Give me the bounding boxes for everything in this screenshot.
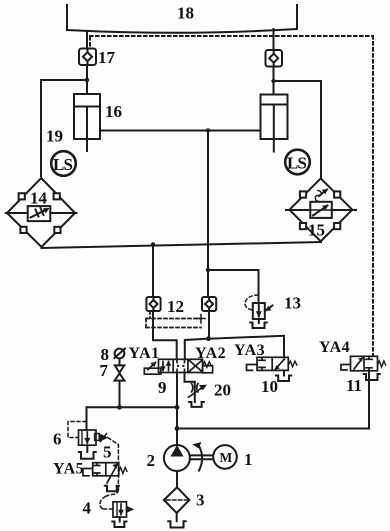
- check valve 7: [115, 359, 125, 407]
- node manifold to pump riser: [175, 405, 180, 410]
- svg-text:7: 7: [100, 361, 109, 380]
- svg-text:13: 13: [284, 294, 301, 313]
- motor 1: [213, 445, 237, 469]
- wire port T to throttle 20: [185, 373, 195, 403]
- wire branch to diamond 14: [41, 80, 87, 176]
- node center port: [206, 128, 210, 132]
- valve 10: [247, 357, 297, 370]
- rotation arrow: [194, 443, 203, 471]
- wire 12L to valve 9 port A: [153, 311, 177, 360]
- wire 4 to tank: [119, 517, 121, 521]
- svg-text:18: 18: [177, 4, 194, 23]
- tank 10: [276, 376, 291, 382]
- wire 17R to cylinder: [273, 67, 275, 95]
- wire center vertical: [207, 131, 209, 297]
- svg-text:2: 2: [147, 451, 156, 470]
- valve 9 proportional directional: [144, 359, 212, 374]
- tank 5: [79, 452, 96, 459]
- svg-text:15: 15: [308, 221, 325, 240]
- wire 5 to tank: [86, 445, 88, 452]
- LS sensor right: [285, 150, 310, 175]
- svg-text:20: 20: [214, 381, 231, 400]
- wire branch to diamond 15: [274, 81, 322, 178]
- gauge 8: [115, 349, 126, 359]
- svg-text:9: 9: [158, 378, 167, 397]
- wire port P down to pump line: [176, 373, 178, 430]
- wire 10 to tank: [283, 370, 285, 375]
- pump 2: [164, 429, 190, 472]
- wire right drop: [273, 29, 275, 50]
- svg-text:12: 12: [167, 297, 184, 316]
- pilot dotted line top: [90, 36, 373, 47]
- wire cylinder ports to center: [100, 130, 261, 132]
- pilot dashed loop 6: [68, 422, 86, 438]
- valve 13 relief: [245, 295, 273, 328]
- throttle valve 20: [189, 384, 207, 398]
- svg-text:11: 11: [346, 376, 362, 395]
- wire LS line across: [42, 242, 322, 248]
- wire to valve 10: [209, 336, 285, 358]
- svg-text:4: 4: [83, 499, 92, 518]
- valve 4: [113, 502, 133, 517]
- node on LS line: [151, 242, 155, 246]
- svg-text:LS: LS: [287, 154, 307, 173]
- svg-text:6: 6: [53, 430, 62, 449]
- node junction left: [85, 78, 89, 82]
- pilot dotted line right: [372, 36, 374, 356]
- check valve box 17 right: [266, 50, 283, 67]
- svg-text:16: 16: [105, 102, 122, 121]
- pilot dashed lines 12 to valve 9: [146, 311, 201, 328]
- pilot dashed 5 to 4: [100, 438, 118, 509]
- tank YA5: [105, 486, 119, 492]
- beam 18: [67, 5, 297, 33]
- svg-text:3: 3: [196, 491, 205, 510]
- wire port B up: [185, 339, 209, 360]
- svg-text:YA1: YA1: [129, 345, 160, 362]
- wire left drop: [86, 32, 88, 48]
- pilot plus mark: [197, 315, 205, 324]
- filter 3: [164, 487, 190, 513]
- tank 3: [168, 521, 185, 527]
- cylinder 16 left: [74, 94, 100, 151]
- node branch to valve 13: [206, 268, 210, 272]
- tank 20: [189, 402, 204, 407]
- orifice 12 right: [202, 297, 216, 311]
- svg-text:10: 10: [261, 377, 278, 396]
- valve 11: [341, 356, 386, 371]
- wire down to orifice 12 left: [152, 245, 154, 297]
- svg-text:1: 1: [244, 450, 253, 469]
- svg-text:5: 5: [103, 443, 112, 462]
- wire pump to filter: [176, 471, 178, 487]
- drive shaft: [190, 455, 213, 459]
- valve 15 diamond: [286, 178, 356, 241]
- check valve box 17: [79, 49, 96, 66]
- svg-text:17: 17: [98, 48, 116, 67]
- svg-text:YA4: YA4: [319, 339, 350, 356]
- node gauge branch: [117, 405, 122, 410]
- LS sensor left: [51, 151, 76, 176]
- orifice 12 left: [146, 297, 160, 311]
- wire filter to tank: [176, 513, 178, 521]
- svg-text:M: M: [220, 450, 233, 465]
- wire pressure manifold: [87, 406, 178, 408]
- wire manifold left down to valve 5: [86, 407, 88, 430]
- tank 11: [364, 374, 380, 380]
- tank 4: [112, 522, 126, 528]
- node pump riser branch: [175, 426, 180, 431]
- svg-text:YA5: YA5: [53, 461, 84, 478]
- svg-text:19: 19: [46, 127, 63, 146]
- wire branch to valve 13: [208, 270, 259, 303]
- valve 5 relief: [79, 430, 108, 445]
- valve YA5: [83, 463, 127, 483]
- svg-text:14: 14: [30, 189, 48, 208]
- node YA2 junction: [206, 336, 211, 341]
- svg-text:LS: LS: [53, 155, 73, 174]
- cylinder right: [261, 95, 288, 152]
- node junction right: [271, 79, 275, 83]
- wire 17 to cylinder: [86, 66, 88, 95]
- wire 11 to pump line: [177, 371, 369, 429]
- wire 12R down: [208, 311, 210, 339]
- valve 14 diamond: [6, 178, 77, 247]
